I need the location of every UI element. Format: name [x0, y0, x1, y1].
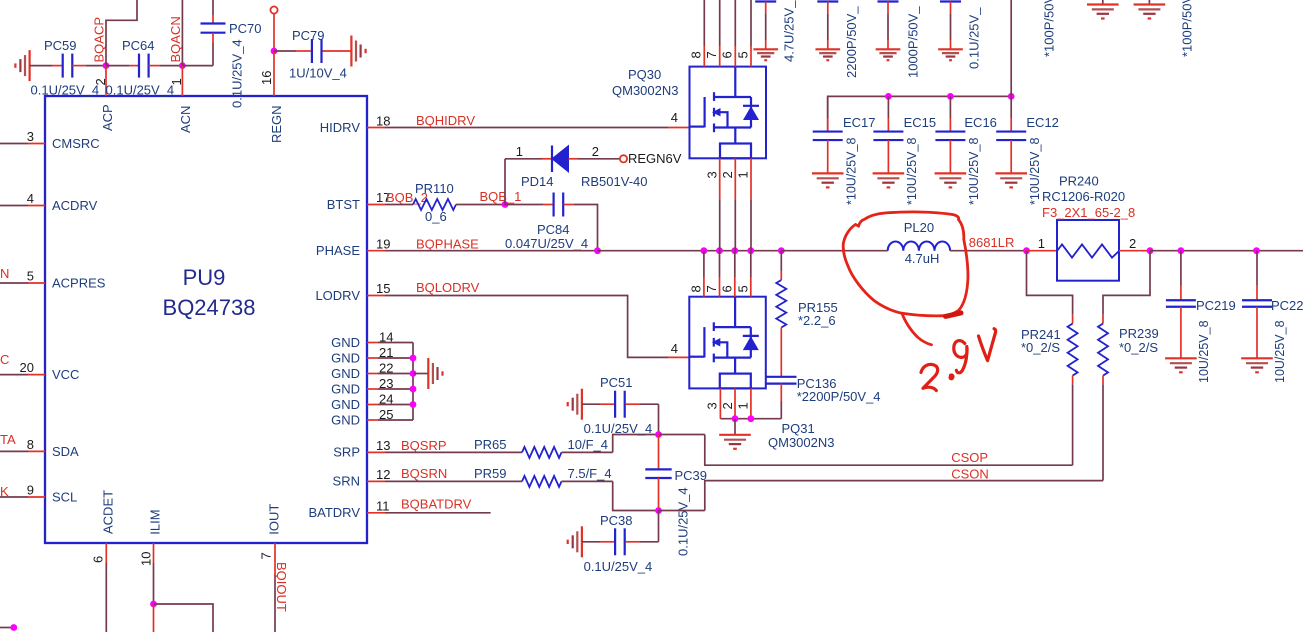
wire GND pin 24	[378, 404, 413, 406]
PQ31 drain bar	[714, 326, 751, 328]
wire node down to PC38	[658, 511, 660, 542]
svg-text:PR59: PR59	[474, 466, 507, 481]
wire pin 3 CMSRC	[0, 143, 28, 145]
PQ31 internal drain feed	[734, 297, 736, 327]
wire ILIM branch	[154, 604, 214, 632]
pin stub GND pin 25	[367, 419, 378, 421]
wire EC bus	[828, 96, 1012, 131]
node junction pin5	[747, 247, 754, 254]
wire PC59 to node BQACP	[72, 65, 86, 67]
svg-text:CMSRC: CMSRC	[52, 136, 100, 151]
node EC16 junction	[947, 93, 954, 100]
node junction pin6	[731, 247, 738, 254]
wire PQ31 pin 2 down	[734, 388, 736, 418]
svg-text:VCC: VCC	[52, 367, 79, 382]
svg-text:C: C	[0, 352, 9, 367]
capacitor PC39	[658, 435, 660, 469]
svg-text:RC1206-R020: RC1206-R020	[1042, 189, 1125, 204]
wire HIDRV net BQHIDRV	[367, 127, 385, 129]
svg-text:BQACN: BQACN	[168, 16, 183, 62]
svg-text:ACN: ACN	[178, 106, 193, 133]
svg-text:EC17: EC17	[843, 115, 876, 130]
svg-text:BQIOUT: BQIOUT	[274, 562, 289, 612]
ground for PC220	[1241, 357, 1273, 359]
wire PQ31 pin 6 top	[734, 251, 736, 277]
svg-text:3: 3	[705, 171, 720, 178]
PQ31 gate	[703, 327, 705, 357]
capacitor PC51	[614, 391, 616, 418]
pin stub REGN	[273, 51, 275, 96]
svg-text:ILIM: ILIM	[148, 509, 163, 534]
svg-text:EC15: EC15	[904, 115, 937, 130]
node ILIM junction	[150, 601, 157, 608]
pin stub ACPRES	[28, 282, 45, 284]
pin stub ILIM pin 10	[153, 543, 155, 563]
wire PC38 to node	[626, 541, 640, 543]
capacitor 4.7U/25V_ top	[755, 0, 776, 2]
node REGN junction	[271, 48, 278, 55]
svg-text:REGN: REGN	[269, 105, 284, 143]
node junction	[732, 415, 739, 422]
overdraw on loop bottom	[946, 313, 962, 317]
wire PQ30 pin 1 down	[750, 158, 752, 200]
svg-text:PC70: PC70	[229, 21, 262, 36]
ground for PC59	[29, 50, 31, 81]
svg-text:20: 20	[20, 360, 34, 375]
svg-text:19: 19	[376, 237, 390, 252]
resistor PR239	[1102, 315, 1104, 324]
svg-text:PR240: PR240	[1059, 174, 1099, 189]
capacitor 2200P/50V_ top	[817, 0, 838, 2]
node EC12 junction	[1008, 93, 1015, 100]
svg-text:CSON: CSON	[951, 467, 989, 482]
svg-text:0.1U/25V_4: 0.1U/25V_4	[106, 83, 175, 98]
wire ACDET down	[105, 563, 107, 632]
wire EC17 to ground	[827, 140, 829, 173]
pin stub GND pin 24	[367, 404, 378, 406]
svg-text:BQSRP: BQSRP	[401, 438, 447, 453]
wire PQ30 pin 8 top	[703, 0, 705, 46]
wire PHASE rail	[385, 250, 598, 252]
resistor PR65	[522, 447, 562, 458]
pin stub GND pin 22	[367, 373, 378, 375]
wire PQ31 pin 1 down	[750, 388, 752, 418]
svg-text:PC84: PC84	[537, 222, 570, 237]
svg-text:PR110: PR110	[415, 181, 454, 196]
svg-text:5: 5	[735, 51, 750, 58]
wire sense PR241	[1027, 251, 1073, 315]
wire node up to diode	[504, 159, 506, 205]
wire PC84 to PHASE rail	[564, 204, 574, 206]
resistor PR155	[776, 280, 786, 328]
node CSON junction	[655, 507, 662, 514]
svg-text:0_6: 0_6	[425, 209, 447, 224]
wire CSON across	[659, 510, 705, 512]
wire PC219 to ground	[1180, 307, 1182, 359]
wire GND bus to ground	[413, 373, 428, 375]
PQ31 channel segments	[713, 322, 715, 331]
svg-text:*10U/25V_8: *10U/25V_8	[844, 138, 858, 205]
wire PC136 down	[780, 384, 782, 401]
ground top right 2	[1148, 0, 1150, 5]
svg-text:2: 2	[720, 402, 735, 409]
svg-text:QM3002N3: QM3002N3	[768, 435, 834, 450]
wire EC16 to ground	[949, 140, 951, 173]
svg-text:PD14: PD14	[521, 174, 554, 189]
wire PR241 to CSOP	[1072, 384, 1074, 465]
svg-text:PHASE: PHASE	[316, 243, 360, 258]
terminal REGN6V	[620, 155, 627, 162]
wire IOUT down	[274, 575, 276, 632]
node BQB_1 junction	[502, 201, 509, 208]
wire PR240 pin2	[1119, 250, 1150, 252]
pin stub ACP pin 2	[105, 66, 107, 96]
node junction PC219	[1178, 247, 1185, 254]
svg-text:PR65: PR65	[474, 437, 507, 452]
wire to ground	[734, 419, 736, 435]
node EC15 junction	[885, 93, 892, 100]
svg-text:ACDRV: ACDRV	[52, 198, 98, 213]
wire BQACP up	[106, 0, 137, 66]
svg-text:6: 6	[91, 556, 106, 563]
svg-text:GND: GND	[331, 397, 360, 412]
wire PC79 to ground	[323, 50, 352, 52]
pin stub LODRV pin 15	[367, 295, 385, 297]
capacitor PC59	[62, 54, 64, 78]
svg-text:0.1U/25V_4: 0.1U/25V_4	[31, 83, 100, 98]
inductor PL20 4.7uH	[888, 242, 950, 251]
svg-text:BQSRN: BQSRN	[401, 466, 447, 481]
svg-text:*10U/25V_8: *10U/25V_8	[1028, 138, 1042, 205]
svg-text:7: 7	[704, 285, 719, 292]
node GND junction	[410, 370, 417, 377]
svg-text:1: 1	[516, 144, 523, 159]
svg-text:2: 2	[1129, 236, 1136, 251]
svg-text:3: 3	[705, 402, 720, 409]
svg-text:4: 4	[27, 191, 34, 206]
pin stub SDA	[28, 450, 45, 452]
svg-text:IOUT: IOUT	[267, 504, 282, 535]
ground for EC17	[812, 172, 844, 174]
ground	[753, 48, 778, 50]
wire EC15 to ground	[887, 140, 889, 173]
PQ30 drain bar	[714, 96, 751, 98]
svg-text:GND: GND	[331, 366, 360, 381]
svg-text:*100P/50V: *100P/50V	[1180, 0, 1195, 57]
svg-text:BQBATDRV: BQBATDRV	[401, 497, 472, 512]
svg-text:PC79: PC79	[292, 28, 325, 43]
svg-text:PQ30: PQ30	[628, 67, 661, 82]
svg-text:SRN: SRN	[333, 474, 360, 489]
svg-text:2: 2	[592, 144, 599, 159]
svg-text:5: 5	[27, 269, 34, 284]
svg-text:BQB_1: BQB_1	[480, 189, 522, 204]
node junction pin7	[716, 247, 723, 254]
svg-text:EC12: EC12	[1026, 115, 1059, 130]
PQ30 source tab	[720, 144, 751, 159]
wire PR65 to CSOP node	[562, 451, 613, 453]
node junction PR155	[778, 247, 785, 254]
wire cap to ground	[827, 2, 829, 15]
pin stub SRP pin 13	[367, 451, 385, 453]
wire EC12 up	[1010, 0, 1012, 96]
PQ30 gate	[703, 97, 705, 127]
capacitor 1000P/50V_ top	[878, 0, 899, 2]
wire PQ30 pin 7 top	[719, 0, 721, 46]
wire rail to PC219	[1180, 251, 1182, 285]
svg-text:BATDRV: BATDRV	[308, 505, 360, 520]
svg-text:10/F_4: 10/F_4	[568, 437, 608, 452]
svg-text:GND: GND	[331, 351, 360, 366]
wire GND pin 23	[378, 388, 413, 390]
wire EC12 to ground	[1010, 140, 1012, 173]
PQ31 body diode	[750, 327, 752, 358]
ground	[815, 48, 840, 50]
wire GND pin 14	[378, 342, 413, 344]
wire cap to ground	[950, 2, 952, 15]
capacitor PC70	[212, 0, 214, 15]
capacitor PC64	[138, 54, 140, 78]
wire PQ30 pin 5 top	[750, 0, 752, 46]
node CSOP junction	[655, 431, 662, 438]
svg-text:SRP: SRP	[333, 445, 360, 460]
wire PC51 to node	[626, 403, 640, 405]
svg-text:BTST: BTST	[327, 197, 360, 212]
capacitor 0.1U/25V_ top	[940, 0, 961, 2]
svg-text:4: 4	[671, 110, 678, 125]
svg-text:0.1U/25V_4: 0.1U/25V_4	[230, 39, 245, 108]
wire PHASE rail to inductor	[781, 250, 887, 252]
svg-text:1U/10V_4: 1U/10V_4	[289, 66, 347, 81]
capacitor PC136	[766, 376, 796, 378]
svg-text:24: 24	[379, 392, 393, 407]
svg-text:0.1U/25V_4: 0.1U/25V_4	[584, 421, 653, 436]
wire BATDRV	[385, 512, 491, 514]
wire to PR240	[1027, 250, 1058, 252]
wire PQ30 pin 2 down	[734, 158, 736, 200]
wire bus to EC16	[949, 96, 951, 118]
wire bus to EC12	[1010, 96, 1012, 118]
PQ31 source link	[720, 342, 728, 357]
wire PR155 to PC136	[780, 328, 782, 377]
wire pin 8 SDA	[0, 450, 28, 452]
svg-text:10: 10	[139, 552, 154, 566]
ground for EC15	[873, 172, 905, 174]
svg-text:6: 6	[720, 51, 735, 58]
svg-text:6: 6	[720, 285, 735, 292]
capacitor PC219	[1166, 299, 1196, 301]
pin stub SCL	[28, 496, 45, 498]
wire node to PC64	[106, 65, 129, 67]
svg-text:8: 8	[689, 51, 704, 58]
ground for PC51	[581, 389, 583, 420]
svg-text:SDA: SDA	[52, 444, 79, 459]
svg-text:REGN6V: REGN6V	[628, 151, 682, 166]
wire PQ31 pin 3 down	[719, 388, 721, 418]
svg-text:PC64: PC64	[122, 38, 155, 53]
wire diode pin 1	[505, 158, 542, 160]
svg-text:K: K	[0, 484, 9, 499]
PQ30 body diode	[750, 97, 752, 128]
capacitor EC16	[935, 130, 965, 132]
svg-text:*10U/25V_8: *10U/25V_8	[967, 138, 981, 205]
svg-text:4.7uH: 4.7uH	[905, 251, 940, 266]
node junction	[748, 415, 755, 422]
pin stub IOUT pin 7	[274, 543, 276, 575]
wire node to PC84	[505, 204, 543, 206]
resistor PR241	[1072, 315, 1074, 324]
svg-text:22: 22	[379, 361, 393, 376]
pin stub GND pin 21	[367, 357, 378, 359]
capacitor PC84	[552, 193, 554, 217]
svg-text:N: N	[0, 266, 9, 281]
svg-text:GND: GND	[331, 382, 360, 397]
svg-text:0.1U/25V_4: 0.1U/25V_4	[676, 487, 691, 556]
svg-text:PC219: PC219	[1196, 298, 1236, 313]
svg-text:1: 1	[1038, 236, 1045, 251]
wire PHASE to PR155	[780, 251, 782, 271]
svg-text:GND: GND	[331, 413, 360, 428]
svg-text:7: 7	[259, 552, 274, 559]
svg-text:PC51: PC51	[600, 375, 633, 390]
wire PR110 to node BQB_1	[456, 204, 505, 206]
node BQACP junction	[103, 62, 110, 69]
svg-text:F3_2X1_65-2_8: F3_2X1_65-2_8	[1042, 205, 1135, 220]
wire bus to EC15	[887, 96, 889, 118]
svg-text:ACPRES: ACPRES	[52, 276, 106, 291]
svg-text:GND: GND	[331, 335, 360, 350]
svg-text:9: 9	[27, 483, 34, 498]
wire REGN down	[273, 14, 275, 51]
PQ30 source link	[720, 112, 728, 127]
svg-text:PU9: PU9	[183, 265, 226, 290]
wire GND pin 25	[378, 419, 413, 421]
svg-text:2200P/50V_: 2200P/50V_	[844, 6, 859, 78]
pin stub CMSRC	[28, 143, 45, 145]
pin stub GND pin 14	[367, 342, 378, 344]
wire GND bus vertical	[412, 343, 414, 421]
svg-text:16: 16	[259, 71, 274, 85]
wire PQ31 pin 5 top	[750, 251, 752, 277]
svg-text:BQLODRV: BQLODRV	[416, 280, 480, 295]
handwritten 2.9V	[921, 364, 938, 390]
svg-text:0.1U/25V_: 0.1U/25V_	[966, 7, 981, 69]
svg-text:13: 13	[376, 438, 390, 453]
wire bus to EC17	[827, 96, 829, 118]
wire pin 4 ACDRV	[0, 205, 28, 207]
svg-text:8: 8	[27, 437, 34, 452]
capacitor EC17	[813, 130, 843, 132]
PQ30 source bar	[714, 126, 751, 128]
svg-text:1: 1	[736, 171, 751, 178]
PQ30 channel segments	[713, 92, 715, 101]
hand drawn loop around PL20	[843, 212, 968, 316]
wire REGN to PC79	[274, 50, 296, 52]
transistor PQ30 QM3002N3 body	[690, 67, 767, 159]
PQ31 source tab	[720, 374, 751, 389]
ground for EC16	[935, 172, 967, 174]
wire PQ31 pin 7 top	[719, 251, 721, 277]
svg-text:BQ24738: BQ24738	[163, 295, 256, 320]
ground top right 1	[1102, 0, 1104, 5]
wire ground to PC59	[30, 65, 52, 67]
wire PQ30 pin 6 top	[734, 0, 736, 46]
svg-text:PL20: PL20	[904, 220, 934, 235]
node GND junction	[410, 386, 417, 393]
svg-text:10U/25V_8: 10U/25V_8	[1197, 320, 1211, 383]
wire SRP to PR65	[385, 451, 522, 453]
pin stub SRN pin 12	[367, 480, 385, 482]
svg-text:2: 2	[720, 171, 735, 178]
pin stub BATDRV pin 11	[367, 512, 385, 514]
resistor PR110	[413, 199, 456, 210]
pin stub VCC	[28, 374, 45, 376]
svg-text:LODRV: LODRV	[315, 288, 360, 303]
svg-text:1000P/50V_: 1000P/50V_	[906, 6, 921, 78]
svg-text:0.1U/25V_4: 0.1U/25V_4	[584, 559, 653, 574]
wire LODRV to PQ31 gate	[385, 296, 668, 358]
wire GND pin 22	[378, 373, 413, 375]
wire BTST to PR110	[385, 204, 413, 206]
PQ31 arrow	[712, 338, 721, 346]
svg-text:PC220: PC220	[1271, 298, 1303, 313]
annotation tail	[902, 313, 932, 344]
svg-text:BQHIDRV: BQHIDRV	[416, 113, 475, 128]
svg-text:15: 15	[376, 281, 390, 296]
svg-text:TA: TA	[0, 432, 16, 447]
svg-text:18: 18	[376, 114, 390, 129]
diode PD14 RB501V-40	[551, 146, 553, 173]
node junction pin8	[701, 247, 708, 254]
svg-text:*0_2/S: *0_2/S	[1021, 340, 1060, 355]
wire diode pin 2 to REGN6V	[569, 158, 579, 160]
wire ground to PC51	[582, 403, 600, 405]
svg-text:25: 25	[379, 407, 393, 422]
wire GND pin 21	[378, 357, 413, 359]
wire BQACN up	[181, 0, 183, 66]
svg-text:BQACP: BQACP	[92, 17, 107, 63]
svg-text:PC39: PC39	[675, 468, 708, 483]
svg-text:ACP: ACP	[100, 104, 115, 131]
wire PQ30 pin 3 down	[719, 158, 721, 200]
svg-text:*0_2/S: *0_2/S	[1119, 340, 1158, 355]
svg-text:23: 23	[379, 376, 393, 391]
node PC84 junction	[594, 247, 601, 254]
terminal REGN pin 16	[270, 6, 277, 13]
resistor PR59	[522, 476, 562, 487]
wire PQ31 source junction row	[720, 418, 781, 420]
svg-text:5: 5	[735, 285, 750, 292]
node junction PR240 pin2	[1147, 247, 1154, 254]
svg-text:PC59: PC59	[44, 38, 77, 53]
transistor PQ31 QM3002N3 body	[689, 297, 766, 389]
node GND junction	[410, 355, 417, 362]
PQ31 source bar	[714, 357, 751, 359]
wire cap to ground	[887, 2, 889, 15]
svg-text:7: 7	[704, 51, 719, 58]
wire SRN to PR59	[385, 480, 522, 482]
pin stub ACN pin 1	[181, 66, 183, 96]
ground for PC219	[1165, 357, 1197, 359]
wire ground to PC38	[582, 541, 600, 543]
wire inductor to PR240	[950, 250, 1026, 252]
wire PC220 to ground	[1256, 307, 1258, 359]
node junction PC220	[1253, 247, 1260, 254]
capacitor PC220	[1242, 299, 1272, 301]
svg-text:11: 11	[376, 499, 390, 514]
node BQACN junction	[179, 62, 186, 69]
node junction PR240 pin1	[1023, 247, 1030, 254]
